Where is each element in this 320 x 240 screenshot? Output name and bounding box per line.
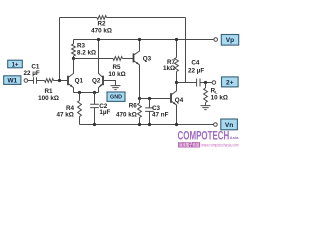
svg-text:GND: GND [110, 95, 122, 101]
svg-text:Q2: Q2 [92, 77, 101, 84]
wire top feedback rail left segment [60, 17, 98, 19]
wire top feedback rail right segment [107, 17, 186, 19]
terminal 1+ [8, 60, 23, 68]
capacitor C3 [149, 99, 151, 108]
svg-text:R1: R1 [44, 88, 53, 95]
capacitor C4 [197, 79, 200, 87]
svg-text:1kΩ: 1kΩ [163, 65, 175, 72]
svg-text:R6: R6 [129, 103, 138, 110]
svg-text:RL: RL [211, 88, 219, 95]
svg-text:22 µF: 22 µF [188, 67, 204, 74]
svg-text:100 kΩ: 100 kΩ [38, 95, 59, 102]
svg-text:470 kΩ: 470 kΩ [91, 27, 112, 34]
wire left feedback vertical to Q1 base [59, 18, 61, 81]
svg-text:22 µF: 22 µF [23, 70, 39, 77]
node Q3 emitter junction [138, 97, 141, 100]
svg-text:2+: 2+ [226, 79, 234, 86]
resistor R6 [139, 99, 141, 104]
svg-text:10 kΩ: 10 kΩ [211, 95, 228, 102]
svg-text:R5: R5 [112, 64, 121, 71]
wire output node to C4 [177, 82, 197, 84]
svg-text:C4: C4 [191, 60, 200, 67]
transistor Q2 [102, 76, 104, 86]
terminal GND [107, 92, 125, 101]
capacitor C1 [28, 80, 34, 82]
node output junction [175, 81, 178, 84]
node C3 top [148, 97, 151, 100]
transistor Q1 [67, 76, 69, 86]
resistor R4 [79, 93, 81, 101]
svg-text:47 nF: 47 nF [152, 112, 169, 119]
svg-text:Q1: Q1 [75, 77, 84, 84]
node C2 top [93, 91, 96, 94]
wire shared emitter bus [74, 92, 99, 94]
resistor R1 [45, 79, 54, 83]
node R4 top [78, 91, 81, 94]
resistor R7 [176, 40, 178, 58]
terminal Vp [214, 38, 218, 42]
svg-text:1µF: 1µF [99, 109, 110, 116]
terminal Vn [214, 123, 218, 127]
svg-text:Vn: Vn [225, 122, 233, 129]
wire bottom Vn rail [80, 124, 214, 126]
svg-text:Q3: Q3 [143, 55, 152, 62]
resistor R3 [73, 40, 75, 45]
svg-text:Asia: Asia [230, 135, 240, 140]
node Q1 base [58, 79, 61, 82]
svg-text:8.2 kΩ: 8.2 kΩ [77, 50, 96, 57]
svg-text:470 kΩ: 470 kΩ [116, 112, 137, 119]
transistor Q3 [133, 53, 135, 62]
watermark url strip [178, 142, 200, 147]
wire Q3 emitter to Q4 base [140, 98, 171, 100]
node Q1 collector junction [72, 57, 75, 60]
svg-text:COMPOTECH: COMPOTECH [178, 129, 230, 142]
resistor RL [205, 83, 207, 89]
svg-text:W1: W1 [8, 78, 18, 85]
svg-text:47 kΩ: 47 kΩ [56, 111, 73, 118]
wire Vp supply rail [74, 39, 214, 41]
svg-text:10 kΩ: 10 kΩ [108, 71, 125, 78]
svg-text:環球電子商城: 環球電子商城 [179, 141, 200, 148]
svg-text:Vp: Vp [226, 37, 234, 44]
transistor Q4 [170, 93, 172, 103]
wire right feedback vertical to output node [185, 18, 187, 83]
svg-text:Q4: Q4 [175, 97, 184, 104]
svg-text:1+: 1+ [12, 62, 19, 68]
svg-text:www.compotechasia.com: www.compotechasia.com [201, 143, 239, 148]
wire Q2 base to ground [103, 81, 116, 86]
ground symbol Q2 base [111, 86, 121, 90]
resistor R5 [113, 57, 123, 61]
terminal 2+ [212, 81, 216, 85]
resistor R2 [97, 16, 107, 20]
capacitor C2 [94, 93, 96, 105]
wire interstage to R5 [74, 58, 114, 60]
terminal W1 [4, 76, 21, 85]
svg-text:R3: R3 [77, 43, 86, 50]
ground symbol RL [201, 106, 211, 110]
